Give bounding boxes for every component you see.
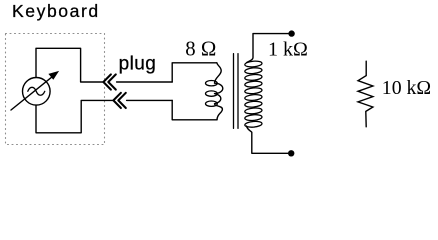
svg-text:Keyboard: Keyboard [12,1,100,21]
inductor L2 secondary winding [245,60,263,127]
wire secondary top lead [247,34,289,63]
inductor L1 primary coil curls [206,81,218,86]
plug chevron upper [103,74,111,89]
node top (dot) [288,30,294,36]
node bottom (dot) [288,150,294,156]
keyboard dotted enclosure [6,34,105,145]
svg-text:10 kΩ: 10 kΩ [382,77,431,99]
svg-text:8 Ω: 8 Ω [185,38,216,61]
wire keyboard loop upper [36,48,103,82]
arrow (variable) [11,75,54,110]
wire plug to speaker coil lower [127,99,173,101]
wire plug to speaker coil upper [117,81,173,83]
transformer core [234,54,239,129]
resistor R1 10 k [358,61,373,127]
svg-text:plug: plug [119,53,157,74]
source circle (signal source) [23,78,51,106]
sine wave [28,87,45,95]
wire 8-ohm primary loop lower [172,100,217,119]
inductor L1 primary coil spine [215,63,223,120]
svg-text:1 kΩ: 1 kΩ [268,39,308,61]
plug chevron lower [113,93,121,108]
wire 8-ohm primary loop upper [172,63,217,82]
wire secondary bottom lead [247,126,289,153]
wire keyboard loop lower [36,100,113,132]
